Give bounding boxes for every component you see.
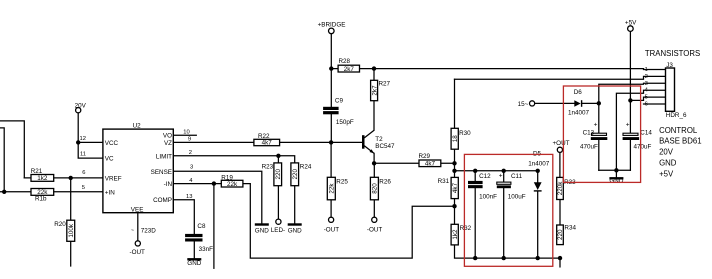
wire D5 legs bbox=[537, 171, 539, 258]
wire VEE leg bbox=[137, 213, 139, 241]
svg-text:+BRIDGE: +BRIDGE bbox=[318, 21, 346, 28]
wire R31 to R32 link bbox=[454, 199, 456, 225]
node C11 top junction bbox=[502, 169, 506, 173]
svg-text:2k7: 2k7 bbox=[344, 66, 355, 73]
svg-text:-IN: -IN bbox=[164, 181, 173, 188]
wire R25 branch to -OUT bbox=[330, 142, 332, 217]
node 20V-VCC junction bbox=[76, 140, 80, 144]
resistor R32 bbox=[451, 224, 472, 245]
wire 20V feed to VCC and VC bbox=[78, 113, 103, 158]
wire R34 bottom stub bbox=[559, 258, 561, 267]
wire 15~ to D6 run bbox=[535, 102, 599, 104]
wire T2 emitter vertical bbox=[373, 153, 375, 163]
resistor R1b bbox=[31, 189, 54, 203]
wire SENSE run to GND bbox=[173, 171, 261, 223]
svg-text:4k7: 4k7 bbox=[425, 161, 436, 168]
svg-text:R32: R32 bbox=[460, 225, 472, 232]
wire -IN run through R19 and bottom loop to R31 node bbox=[173, 184, 454, 259]
terminal +BRIDGE bbox=[318, 21, 346, 33]
svg-text:GND: GND bbox=[187, 260, 201, 267]
capacitor C12 bbox=[468, 173, 497, 201]
capacitor C11 bbox=[497, 172, 526, 200]
node LIMIT-R23 junction bbox=[276, 154, 280, 158]
value 723D bbox=[131, 227, 156, 234]
resistor R22 bbox=[254, 133, 280, 147]
terminal -OUT under R26 bbox=[367, 217, 383, 233]
svg-text:BASE BD61: BASE BD61 bbox=[659, 136, 701, 145]
svg-text:~: ~ bbox=[131, 228, 134, 234]
resistor R29 bbox=[419, 153, 441, 168]
svg-text:220: 220 bbox=[557, 229, 564, 240]
wire C13 legs bbox=[598, 103, 600, 170]
node R31-R32 junction bbox=[452, 204, 456, 208]
svg-text:C8: C8 bbox=[197, 223, 206, 230]
wire left input A to R21 bbox=[0, 121, 24, 178]
svg-text:-OUT: -OUT bbox=[130, 249, 146, 256]
node B rail junction bbox=[452, 169, 456, 173]
diode D5 1n4007 bbox=[528, 150, 550, 191]
svg-text:20V: 20V bbox=[659, 148, 674, 157]
wire R30 column bbox=[454, 79, 456, 177]
svg-text:+: + bbox=[626, 122, 630, 129]
svg-text:4k7: 4k7 bbox=[262, 140, 273, 147]
svg-text:470uF: 470uF bbox=[634, 144, 652, 151]
ground under R24 bbox=[288, 223, 302, 234]
svg-text:2: 2 bbox=[189, 150, 192, 156]
node D5 top junction bbox=[536, 169, 540, 173]
svg-text:6: 6 bbox=[645, 102, 648, 108]
svg-text:4k7: 4k7 bbox=[452, 182, 459, 193]
svg-text:470uF: 470uF bbox=[580, 144, 598, 151]
terminal -OUT under R25 bbox=[324, 217, 340, 233]
svg-text:2k7: 2k7 bbox=[371, 85, 378, 96]
capacitor C8 bbox=[185, 223, 213, 253]
svg-text:R31: R31 bbox=[438, 178, 450, 185]
wire R27 bottom to T2 collector bbox=[373, 101, 375, 131]
wire VZ to T2 base run bbox=[173, 141, 362, 143]
wire +BRIDGE drop through C9 bbox=[330, 34, 332, 143]
svg-text:+IN: +IN bbox=[105, 189, 115, 196]
svg-text:T2: T2 bbox=[375, 136, 383, 143]
wire J3 pin 5 run bbox=[630, 97, 665, 100]
svg-text:GND: GND bbox=[609, 177, 623, 184]
node base-C9-R25 junction bbox=[329, 140, 333, 144]
svg-text:R25: R25 bbox=[336, 179, 348, 186]
capacitor C13 bbox=[580, 122, 607, 151]
terminal 15~ bbox=[518, 101, 535, 108]
svg-text:1n4007: 1n4007 bbox=[568, 110, 590, 117]
wire +IN run bbox=[0, 191, 103, 193]
node C12 bottom junction bbox=[473, 256, 477, 260]
terminal LED- bbox=[271, 219, 285, 234]
svg-text:SENSE: SENSE bbox=[151, 169, 172, 176]
svg-text:+OUT: +OUT bbox=[553, 140, 570, 147]
wire R26 branch to -OUT bbox=[373, 163, 375, 217]
svg-text:R24: R24 bbox=[300, 163, 312, 170]
resistor R23 bbox=[262, 163, 282, 186]
node C12 top junction bbox=[473, 169, 477, 173]
node +IN junction bbox=[2, 190, 6, 194]
svg-text:220: 220 bbox=[275, 169, 282, 180]
wire +OUT to R33 leg bbox=[559, 152, 561, 177]
svg-text:-OUT: -OUT bbox=[367, 226, 383, 233]
svg-text:100uF: 100uF bbox=[508, 194, 526, 201]
svg-text:12: 12 bbox=[80, 136, 86, 142]
svg-text:COMP: COMP bbox=[153, 197, 172, 204]
svg-text:C9: C9 bbox=[335, 98, 344, 105]
node A R29-R30 junction bbox=[452, 161, 456, 165]
wire J3 pin 4 run and drop to gnd rail bbox=[616, 90, 665, 170]
wire -IN stub down bbox=[213, 184, 215, 269]
wire snubber top rail bbox=[455, 170, 538, 172]
op-amp U2 regulator 723D bbox=[103, 122, 173, 213]
svg-text:2: 2 bbox=[645, 74, 648, 80]
node +5V-pin5 junction bbox=[628, 98, 632, 102]
svg-text:33nF: 33nF bbox=[199, 246, 214, 253]
svg-text:GND: GND bbox=[255, 228, 269, 235]
wire C14 bottom leg bbox=[629, 140, 631, 170]
resistor R33 bbox=[557, 177, 576, 199]
svg-text:CONTROL: CONTROL bbox=[659, 126, 698, 135]
resistor R27 bbox=[371, 80, 391, 100]
svg-text:820: 820 bbox=[372, 183, 379, 194]
wire gnd stub bbox=[615, 170, 617, 177]
svg-text:TRANSISTORS: TRANSISTORS bbox=[645, 49, 700, 58]
wire C11 legs bbox=[503, 171, 505, 258]
resistor R34 bbox=[557, 225, 577, 245]
svg-text:GND: GND bbox=[659, 159, 677, 168]
svg-text:+: + bbox=[594, 122, 598, 129]
svg-text:6: 6 bbox=[82, 170, 85, 176]
svg-text:VEE: VEE bbox=[131, 207, 144, 214]
resistor R30 bbox=[451, 128, 471, 149]
resistor R31 bbox=[438, 177, 459, 198]
terminal -OUT under VEE bbox=[130, 241, 146, 256]
svg-text:100nF: 100nF bbox=[479, 194, 497, 201]
wire left input B bbox=[0, 128, 4, 192]
wire COMP run to C8 bbox=[173, 200, 194, 258]
terminal 20V bbox=[75, 102, 87, 112]
svg-text:BC547: BC547 bbox=[375, 143, 395, 150]
wire T2 emitter node run to R29 and node A bbox=[374, 162, 454, 164]
wire VREF run bbox=[24, 177, 103, 179]
svg-text:220: 220 bbox=[292, 169, 299, 180]
ground under C8 bbox=[187, 258, 201, 267]
svg-text:LED-: LED- bbox=[271, 227, 285, 234]
svg-text:723D: 723D bbox=[141, 227, 157, 234]
svg-text:+: + bbox=[499, 172, 503, 179]
resistor R24 bbox=[291, 163, 312, 186]
ground under C13 C14 bbox=[609, 177, 623, 184]
wire VO stub bbox=[173, 134, 196, 136]
svg-text:13: 13 bbox=[186, 194, 192, 200]
svg-text:9: 9 bbox=[188, 137, 191, 143]
resistor R25 bbox=[327, 177, 348, 200]
svg-text:-OUT: -OUT bbox=[324, 226, 340, 233]
svg-text:VREF: VREF bbox=[105, 175, 122, 182]
svg-text:VC: VC bbox=[105, 156, 114, 163]
svg-text:VO: VO bbox=[163, 133, 172, 140]
capacitor C14 bbox=[623, 122, 653, 151]
ground under SENSE bbox=[255, 223, 269, 234]
svg-text:+5V: +5V bbox=[659, 169, 674, 178]
wire C12 legs bbox=[474, 171, 476, 258]
svg-text:1n4007: 1n4007 bbox=[528, 161, 550, 168]
svg-text:R26: R26 bbox=[379, 179, 391, 186]
svg-text:R30: R30 bbox=[459, 130, 471, 137]
node R28-R27 junction bbox=[372, 66, 376, 70]
capacitor C9 bbox=[323, 98, 354, 127]
node emitter junction bbox=[372, 161, 376, 165]
svg-text:U2: U2 bbox=[133, 122, 142, 129]
svg-text:R1b: R1b bbox=[35, 196, 47, 203]
svg-text:R27: R27 bbox=[379, 81, 391, 88]
svg-text:GND: GND bbox=[288, 228, 302, 235]
terminal +OUT bbox=[553, 140, 570, 152]
svg-text:R20: R20 bbox=[54, 221, 66, 228]
terminal +5V bbox=[625, 19, 637, 31]
svg-text:+5V: +5V bbox=[625, 19, 637, 26]
svg-text:C11: C11 bbox=[511, 173, 523, 180]
svg-text:C13: C13 bbox=[583, 129, 595, 136]
svg-text:R34: R34 bbox=[564, 225, 576, 232]
wire LIMIT run with drops to R23 R24 bbox=[173, 156, 294, 163]
svg-text:100k: 100k bbox=[68, 223, 75, 238]
svg-text:22k: 22k bbox=[329, 183, 336, 194]
resistor R19 bbox=[221, 175, 243, 188]
svg-text:5: 5 bbox=[82, 185, 85, 191]
diode D6 1n4007 bbox=[568, 89, 590, 116]
node R34 rail junction bbox=[558, 256, 562, 260]
svg-text:VCC: VCC bbox=[105, 140, 119, 147]
wire +5V drop to C14 bbox=[629, 31, 631, 133]
wire R33 to R34 link bbox=[559, 200, 561, 226]
node D6-C13-pin3 junction bbox=[597, 101, 601, 105]
svg-text:1: 1 bbox=[645, 67, 648, 73]
node C11 bottom junction bbox=[502, 256, 506, 260]
svg-text:LIMIT: LIMIT bbox=[156, 153, 172, 160]
svg-text:3: 3 bbox=[645, 81, 648, 87]
svg-text:18: 18 bbox=[452, 135, 459, 143]
resistor R26 bbox=[370, 177, 391, 200]
svg-text:D6: D6 bbox=[574, 89, 583, 96]
wire R23 to LED- leg bbox=[277, 186, 279, 219]
node +BRIDGE-R28 junction bbox=[329, 66, 333, 70]
svg-text:22k: 22k bbox=[227, 181, 238, 188]
resistor R20 bbox=[54, 220, 75, 241]
svg-text:HDR_6: HDR_6 bbox=[666, 112, 687, 119]
red highlight box snubber bbox=[464, 154, 552, 266]
svg-text:C12: C12 bbox=[479, 173, 491, 180]
wire R27 top leg bbox=[373, 69, 375, 81]
svg-text:20V: 20V bbox=[75, 102, 87, 109]
connector J3 HDR_6 bbox=[666, 62, 687, 119]
wire VREF to R20 drop bbox=[70, 178, 72, 266]
svg-text:1k2: 1k2 bbox=[452, 229, 459, 240]
svg-text:R21: R21 bbox=[31, 168, 43, 175]
wire J3 pin 6 stub bbox=[644, 103, 666, 105]
wire J3 pin 3 run and drop bbox=[599, 83, 666, 103]
resistor R28 bbox=[338, 58, 359, 73]
red highlight box 5V supply bbox=[563, 86, 640, 182]
node VREF-R20 junction bbox=[69, 176, 73, 180]
wire R28 run to J3 pin 1 bbox=[331, 68, 665, 71]
wire R32 leg and east bottom rail bbox=[455, 245, 561, 258]
wire J3 pin 2 run bbox=[455, 76, 666, 79]
svg-text:5: 5 bbox=[645, 95, 648, 101]
svg-text:C14: C14 bbox=[640, 129, 652, 136]
svg-text:3: 3 bbox=[190, 165, 193, 171]
node D5 bottom junction bbox=[536, 256, 540, 260]
transistor T2 BC547 bbox=[362, 130, 395, 153]
svg-text:VZ: VZ bbox=[164, 140, 172, 147]
wire C13 C14 gnd rail bbox=[599, 169, 631, 171]
svg-text:J3: J3 bbox=[666, 62, 673, 69]
svg-text:R28: R28 bbox=[339, 58, 351, 65]
svg-text:10: 10 bbox=[183, 130, 189, 136]
svg-text:R23: R23 bbox=[262, 163, 274, 170]
svg-text:15~: 15~ bbox=[518, 101, 529, 108]
node -IN junction bbox=[212, 181, 216, 185]
svg-text:150pF: 150pF bbox=[336, 119, 354, 126]
svg-text:R29: R29 bbox=[419, 153, 431, 160]
svg-text:11: 11 bbox=[80, 151, 86, 157]
node gnd rail junction bbox=[614, 168, 618, 172]
svg-text:1k2: 1k2 bbox=[37, 175, 48, 182]
resistor R21 bbox=[31, 168, 54, 182]
wire R24 to GND leg bbox=[294, 186, 296, 224]
